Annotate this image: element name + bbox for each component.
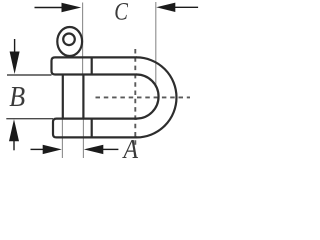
- extension line C left: [82, 3, 84, 75]
- svg-text:A: A: [122, 134, 139, 160]
- dimension C left arrow: [35, 3, 82, 12]
- dimension B top arrow: [10, 39, 20, 74]
- dimension B bottom arrow: [9, 119, 19, 150]
- dimension A right arrow: [84, 145, 119, 154]
- extension line B bottom: [6, 118, 53, 120]
- top leg ear line: [91, 57, 93, 75]
- dimension A left arrow: [31, 145, 62, 154]
- shackle bow inner curve: [137, 75, 159, 119]
- extension line A right: [82, 119, 84, 158]
- pin shaft left edge: [62, 75, 64, 119]
- extension line B top: [7, 74, 52, 76]
- extension line C right: [155, 2, 157, 86]
- bottom leg ear line: [91, 118, 93, 138]
- svg-text:C: C: [114, 0, 128, 25]
- shackle top leg: [52, 57, 138, 74]
- shackle bottom leg: [53, 119, 137, 138]
- dimension C right arrow: [156, 3, 198, 12]
- pin head eye inner circle: [63, 34, 75, 46]
- svg-text:B: B: [9, 81, 25, 112]
- centerline horizontal (bow axis): [96, 96, 191, 98]
- shackle bow outer curve: [137, 57, 177, 137]
- extension line A left: [61, 119, 63, 158]
- pin shaft right edge: [82, 75, 84, 119]
- pin head eye outer ring: [57, 27, 82, 56]
- centerline vertical (bow center): [134, 49, 136, 147]
